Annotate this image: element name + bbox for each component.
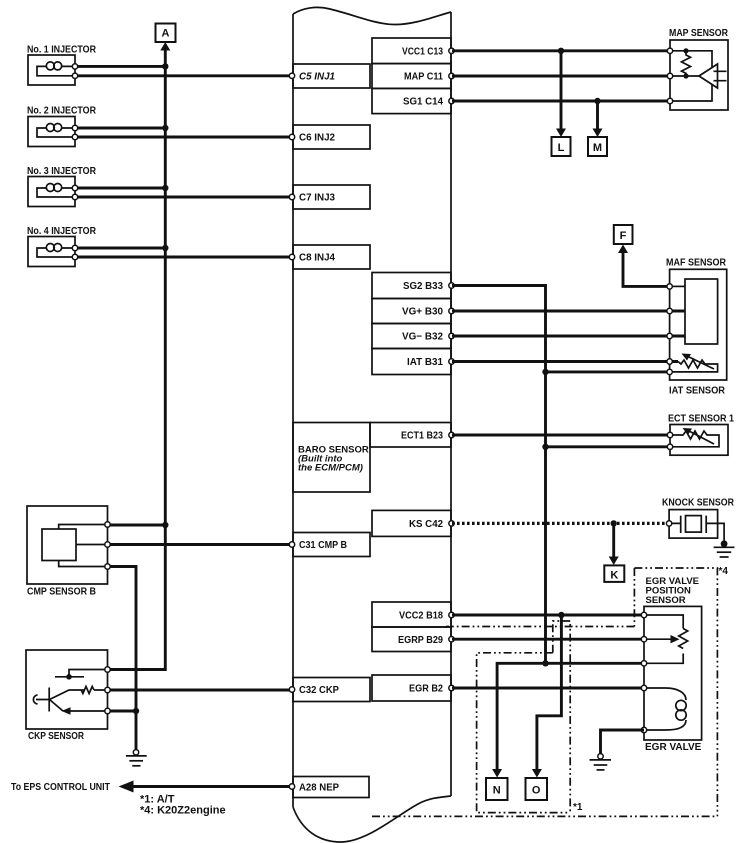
pin box C7 INJ3	[293, 185, 370, 209]
svg-text:C31 CMP B: C31 CMP B	[299, 540, 347, 551]
injector 3 coil wire	[37, 188, 75, 197]
knock ground	[721, 540, 728, 547]
svg-text:VCC1 C13: VCC1 C13	[402, 47, 443, 58]
wire inj1 top to bus	[75, 65, 165, 68]
pin box C31 CMP B	[293, 533, 370, 557]
EGR terminals	[641, 612, 646, 617]
top right sensors	[452, 28, 729, 663]
MAF element rect	[685, 279, 718, 344]
pin circle C6	[289, 134, 294, 139]
MAF/IAT terminals	[667, 284, 672, 289]
svg-text:C5 INJ1: C5 INJ1	[299, 72, 335, 83]
pin circle A28	[289, 784, 294, 789]
wire SG2 end to pot low / N	[497, 663, 644, 771]
pin circle ECT1	[449, 432, 454, 437]
knock sensor box	[669, 510, 718, 538]
wire inj3 bottom to C7	[75, 196, 290, 199]
bottom notes	[11, 781, 290, 817]
svg-text:IAT SENSOR: IAT SENSOR	[669, 386, 726, 397]
svg-text:SENSOR: SENSOR	[646, 595, 686, 606]
left pin boxes	[289, 64, 370, 798]
connector O box	[526, 778, 548, 800]
pin circle KS	[449, 521, 454, 526]
ECT sensor box	[670, 425, 728, 456]
connector K box	[604, 565, 624, 582]
knock piezo element	[669, 516, 706, 533]
pin box VCC2 B18	[372, 602, 451, 627]
wire bus A	[108, 50, 166, 670]
pin box SG1 C14	[372, 88, 451, 113]
svg-text:C6 INJ2: C6 INJ2	[299, 133, 335, 144]
EGR unit box	[644, 606, 702, 740]
svg-text:To EPS CONTROL UNIT: To EPS CONTROL UNIT	[11, 782, 110, 793]
svg-text:IAT B31: IAT B31	[407, 357, 443, 368]
MAP transducer plates	[714, 71, 727, 80]
CKP lower lead with arrow	[50, 700, 108, 712]
wire EGR B2 to valve	[452, 687, 644, 690]
svg-text:No. 2 INJECTOR: No. 2 INJECTOR	[27, 106, 97, 117]
dashed *4 bottom edge	[372, 815, 717, 817]
EGR pot wire	[644, 615, 683, 663]
pin box KS C42	[372, 510, 451, 536]
connector N box	[486, 778, 508, 800]
CMP inner element	[42, 529, 76, 561]
arrow into M	[593, 129, 603, 138]
injector 3 box	[28, 177, 75, 207]
EGR ground	[598, 754, 603, 759]
knock ground wire	[706, 523, 724, 542]
wire VCC1 to MAP sensor	[452, 49, 670, 52]
ECM top torn edge	[293, 7, 451, 24]
pin circle C32	[289, 687, 294, 692]
dashed box *4	[634, 568, 717, 816]
arrow into N	[492, 769, 502, 778]
svg-text:F: F	[620, 230, 627, 242]
svg-text:*4: *4	[719, 566, 729, 577]
node CKP/ground	[133, 708, 139, 714]
EGR pot wiper arrow	[644, 638, 671, 640]
svg-text:EGR B2: EGR B2	[409, 684, 443, 695]
connector F box	[614, 225, 633, 244]
svg-text:SG2 B33: SG2 B33	[403, 281, 443, 292]
svg-text:N: N	[493, 785, 501, 797]
wire inj1 bottom to C5	[75, 74, 290, 77]
wire inj2 bottom to C6	[75, 136, 290, 139]
MAP transducer triangle	[699, 64, 718, 88]
EGR ground wire	[601, 730, 645, 754]
wire MAF top stub	[670, 285, 685, 287]
svg-text:the ECM/PCM): the ECM/PCM)	[298, 463, 363, 474]
pin box VCC1 C13	[372, 38, 451, 64]
svg-text:CKP SENSOR: CKP SENSOR	[28, 731, 85, 742]
egr section	[372, 566, 728, 816]
connector M box	[588, 137, 607, 156]
dashed box *1	[477, 621, 571, 813]
wire SG2 net	[452, 286, 546, 664]
pin circle VCC2	[449, 612, 454, 617]
node CMP/bus	[162, 522, 168, 528]
ground (sensor shield)	[133, 750, 138, 755]
wire SG2 to IAT bottom	[546, 370, 670, 373]
svg-text:No. 3 INJECTOR: No. 3 INJECTOR	[27, 166, 97, 177]
svg-text:VCC2 B18: VCC2 B18	[399, 611, 443, 622]
svg-text:No. 4 INJECTOR: No. 4 INJECTOR	[27, 226, 97, 237]
injector 4 box	[28, 237, 75, 267]
pin circle C7	[289, 194, 294, 199]
svg-text:MAP C11: MAP C11	[404, 72, 443, 83]
svg-text:K: K	[610, 569, 618, 581]
ECT thermistor	[670, 431, 719, 447]
arrow into A	[160, 42, 170, 51]
dashed *4 branch to ECM	[446, 626, 634, 628]
svg-text:C7 INJ3: C7 INJ3	[299, 193, 335, 204]
svg-text:A: A	[162, 28, 170, 40]
pin box VG- B32	[372, 324, 451, 349]
arrow into O	[532, 769, 542, 778]
svg-text:KS C42: KS C42	[409, 519, 443, 530]
injector 4 coil wire	[37, 248, 75, 257]
injector 2 coil wire	[37, 128, 75, 137]
injector 1 coil wire	[37, 66, 75, 75]
wire CMP bottom to ground	[108, 567, 137, 751]
svg-text:MAP SENSOR: MAP SENSOR	[669, 28, 729, 39]
pin circle EGR	[449, 685, 454, 690]
ECM bottom torn edge	[293, 796, 451, 842]
node inj1/bus	[162, 63, 168, 69]
pin circle VG+	[449, 308, 454, 313]
node SG2/IAT	[542, 369, 548, 375]
wire VCC2 branch to O	[537, 615, 562, 772]
pin circle VCC1	[449, 48, 454, 53]
wire MAP C11 to MAP sensor	[452, 75, 670, 78]
injectors	[27, 24, 290, 670]
pin circle IAT	[449, 359, 454, 364]
node VCC2/O	[558, 612, 564, 618]
node MAP r top	[683, 48, 688, 53]
pin box IAT B31	[372, 349, 451, 375]
wire IAT B31 to IAT	[452, 360, 678, 363]
connector L box	[552, 137, 571, 156]
svg-text:ECT SENSOR 1: ECT SENSOR 1	[668, 414, 734, 425]
svg-text:MAF SENSOR: MAF SENSOR	[666, 258, 727, 269]
pin circle SG1	[449, 98, 454, 103]
MAP sensor box	[670, 40, 728, 110]
wire KS dotted	[452, 522, 669, 525]
arrow into F	[618, 245, 628, 254]
svg-text:*1: *1	[573, 802, 583, 813]
MAF/IAT sensor box	[670, 269, 727, 380]
wire CMP top to bus	[108, 524, 166, 527]
MAP terminals	[667, 48, 672, 53]
CMP terminals	[105, 522, 110, 527]
svg-text:VG− B32: VG− B32	[402, 332, 443, 343]
pin circle EGRP	[449, 637, 454, 642]
ECM right edge	[450, 12, 452, 796]
pin box EGRP B29	[372, 627, 451, 652]
node MAP r bottom	[683, 73, 688, 78]
pin circle SG2	[449, 283, 454, 288]
pin box SG2 B33	[372, 273, 451, 299]
pin box C6 INJ2	[293, 125, 370, 149]
pin box A28 NEP	[293, 777, 369, 798]
node inj4/bus	[162, 245, 168, 251]
CMP inner wires	[59, 525, 108, 567]
svg-text:L: L	[558, 142, 565, 154]
injector 2 box	[28, 117, 75, 147]
node SG1/M	[594, 98, 600, 104]
pin circle MAP	[449, 73, 454, 78]
CKP terminals	[105, 667, 110, 672]
EGR pot resistor	[679, 629, 688, 649]
svg-text:ECT1 B23: ECT1 B23	[401, 431, 443, 442]
right pin boxes	[370, 38, 454, 701]
svg-text:EGR VALVE: EGR VALVE	[645, 742, 702, 753]
wire MAF top to F	[623, 252, 670, 286]
pin circle C8	[289, 254, 294, 259]
svg-text:CMP SENSOR B: CMP SENSOR B	[27, 587, 96, 598]
IAT thermistor	[670, 360, 718, 372]
CMP sensor B box	[27, 506, 108, 584]
svg-text:M: M	[593, 142, 602, 154]
node SG2/N	[542, 660, 548, 666]
pin circle C31	[289, 542, 294, 547]
ECM/PCM column	[293, 7, 451, 842]
left sensors	[26, 506, 290, 766]
pin circle VG-	[449, 333, 454, 338]
pin box ECT1 B23	[370, 423, 451, 448]
svg-text:C8 INJ4: C8 INJ4	[299, 253, 335, 264]
arrow into K	[609, 557, 619, 566]
IAT thermistor arrow	[688, 357, 714, 370]
CKP sensor box	[26, 650, 108, 729]
wire drop to M	[596, 101, 599, 131]
MAP internal loop wire	[670, 51, 712, 101]
MAP internal resistor	[682, 51, 691, 76]
node VCC1/L	[558, 48, 564, 54]
CKP pickup core bar	[55, 670, 108, 677]
wire inj4 top to bus	[75, 247, 165, 250]
svg-text:C32 CKP: C32 CKP	[299, 685, 339, 696]
ECT thermistor arrow	[689, 431, 714, 444]
svg-text:No. 1 INJECTOR: No. 1 INJECTOR	[27, 45, 97, 56]
wire inj4 bottom to C8	[75, 256, 290, 259]
MAP middle wire	[670, 75, 700, 77]
wire VCC2 to EGR pot	[452, 614, 644, 617]
wire CMP mid to C31	[108, 543, 291, 546]
svg-text:A28 NEP: A28 NEP	[299, 783, 339, 794]
svg-text:O: O	[532, 785, 541, 797]
knock terminal	[666, 521, 671, 526]
wire drop to K	[612, 523, 615, 561]
injector 2 terminals	[72, 125, 77, 130]
svg-text:*4: K20Z2engine: *4: K20Z2engine	[140, 805, 226, 817]
arrow to EPS control unit	[119, 781, 134, 793]
wire VG+ to MAF	[452, 310, 685, 313]
wire SG1 to MAP sensor	[452, 100, 670, 103]
wire inj2 top to bus	[75, 127, 165, 130]
svg-text:SG1 C14: SG1 C14	[403, 97, 443, 108]
wire A28 NEP to EPS	[130, 785, 290, 788]
node SG2/ECT	[542, 444, 548, 450]
wire CKP mid to C32	[108, 689, 291, 692]
wire ECT1 to sensor	[452, 434, 670, 437]
wire EGRP to wiper	[452, 638, 644, 641]
wire drop to L	[560, 51, 563, 131]
pin box C5 INJ1	[293, 64, 370, 88]
ECM left edge	[292, 14, 294, 807]
wire inj3 top to bus	[75, 187, 165, 190]
connector A box	[156, 24, 176, 43]
svg-text:KNOCK SENSOR: KNOCK SENSOR	[662, 498, 735, 509]
pin box C8 INJ4	[293, 245, 370, 269]
pin box EGR B2	[372, 675, 451, 701]
node inj2/bus	[162, 125, 168, 131]
ECT terminals	[667, 432, 672, 437]
pin circle C5	[289, 73, 294, 78]
injector 1 box	[28, 55, 75, 85]
node KS/K	[611, 520, 617, 526]
EGR valve coil	[644, 688, 686, 730]
injector 4 terminals	[72, 245, 77, 250]
svg-text:EGRP B29: EGRP B29	[398, 635, 443, 646]
pin box C32 CKP	[293, 678, 370, 702]
pin box MAP C11	[372, 64, 451, 89]
wire SG2 to ECT bottom	[546, 445, 671, 448]
mid sensors	[452, 414, 735, 582]
arrow into L	[556, 129, 566, 138]
wire VG- to MAF	[452, 335, 685, 338]
CKP coil resistor	[50, 687, 108, 700]
CKP pole piece	[36, 688, 49, 712]
wire CKP bottom to ground	[108, 710, 137, 713]
injector 3 terminals	[72, 185, 77, 190]
svg-text:VG+ B30: VG+ B30	[402, 307, 443, 318]
pin box VG+ B30	[372, 299, 451, 324]
injector 1 terminals	[72, 64, 77, 69]
node inj3/bus	[162, 185, 168, 191]
BARO sensor note box	[293, 423, 370, 493]
